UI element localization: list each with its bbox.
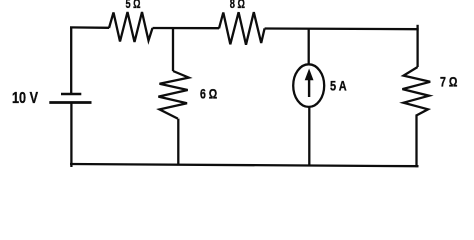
wire node B drop (top wire down to current source) — [308, 29, 310, 65]
voltage source V1 battery long plate (positive) — [49, 101, 91, 104]
wire node A junction drop (top wire down to 6Ω) — [172, 27, 174, 71]
svg-text:6 Ω: 6 Ω — [200, 87, 217, 102]
wire 7Ω to bottom-right corner — [415, 116, 417, 167]
wire top-right (8Ω to node B to top-right corner) — [265, 27, 419, 30]
svg-text:5 A: 5 A — [330, 78, 347, 93]
resistor R3 6Ω zigzag — [158, 71, 188, 119]
svg-text:10 V: 10 V — [12, 90, 38, 107]
current source I1 ellipse — [293, 64, 324, 107]
svg-text:8 Ω: 8 Ω — [230, 0, 245, 11]
resistor R4 7Ω zigzag — [402, 67, 430, 116]
wire top-left (battery + to 5Ω) — [70, 26, 109, 29]
current source I1 arrowhead — [305, 69, 314, 81]
current source I1 arrow shaft — [308, 76, 310, 97]
resistor R1 5Ω zigzag — [109, 12, 153, 42]
wire left branch upper (top-left corner down to battery) — [70, 27, 72, 94]
wire 6Ω to bottom rail — [177, 119, 179, 166]
resistor R2 8Ω zigzag — [219, 12, 265, 45]
wire current source to bottom rail — [308, 107, 310, 166]
voltage source V1 battery short plate (negative) — [61, 93, 81, 96]
svg-text:5 Ω: 5 Ω — [126, 0, 141, 11]
wire left branch lower (battery to bottom-left corner) — [70, 103, 72, 168]
wire right branch upper (top-right corner down to 7Ω, small overshoot) — [416, 25, 418, 67]
wire bottom (bottom rail) — [70, 164, 419, 166]
wire top-middle (5Ω to node A / 8Ω) — [153, 27, 220, 30]
svg-text:7 Ω: 7 Ω — [440, 74, 458, 89]
